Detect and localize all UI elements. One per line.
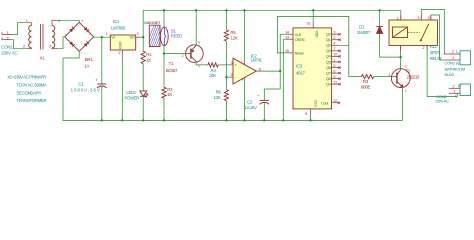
- label IC3: [296, 64, 303, 69]
- svg-text:R3: R3: [363, 79, 369, 84]
- relay common pin bottom: [426, 45, 428, 49]
- svg-text:Reset: Reset: [295, 52, 305, 56]
- pin 13 CKEN IC3: [287, 38, 294, 40]
- relay contact pin top A: [420, 15, 422, 20]
- junction rail R5: [225, 9, 227, 11]
- magnet symbol: [146, 25, 166, 46]
- pin 4 label IC2: [241, 78, 243, 82]
- diode D1 1N4007: [376, 27, 382, 34]
- transformer X1: [27, 20, 57, 49]
- resistor R1: [141, 51, 145, 64]
- svg-text:1N4007: 1N4007: [357, 30, 371, 35]
- label 2N2219: [407, 74, 421, 79]
- regulator IC1 LM7805 body: [110, 35, 135, 50]
- svg-text:11: 11: [333, 80, 337, 84]
- svg-text:~: ~: [89, 32, 91, 36]
- pin 1 label T2 emitter: [405, 89, 407, 93]
- junction node DC+ / C1: [101, 36, 103, 38]
- pin 8 VSS IC3: [310, 109, 312, 121]
- label C2: [247, 100, 253, 105]
- svg-text:4: 4: [241, 78, 243, 82]
- wire IC1 VO to node: [141, 36, 143, 38]
- svg-text:Q1: Q1: [326, 38, 331, 42]
- svg-text:2: 2: [452, 85, 454, 89]
- wire rail to D1: [379, 10, 381, 26]
- svg-text:680E: 680E: [361, 85, 371, 90]
- svg-text:1: 1: [7, 31, 9, 35]
- svg-text:VSS: VSS: [314, 99, 318, 107]
- wire node to R2: [163, 54, 165, 88]
- ground rail wire: [63, 119, 403, 121]
- wire R4 to IC2 pin3: [218, 64, 229, 66]
- pin 15 Reset IC3: [287, 52, 294, 54]
- svg-text:LM7805: LM7805: [111, 26, 126, 31]
- label 1K value R1: [146, 58, 151, 63]
- svg-text:BR1: BR1: [85, 57, 94, 62]
- pin 2 label T1 base: [182, 54, 184, 58]
- wire IC2 out to node: [262, 70, 280, 72]
- label R6: [216, 90, 222, 95]
- label 1N4007 value D1: [357, 30, 371, 35]
- bridge ~ mark right: [89, 32, 91, 36]
- svg-text:Q8: Q8: [326, 77, 331, 81]
- svg-text:CON3: CON3: [445, 61, 456, 66]
- svg-text:POWER: POWER: [125, 95, 140, 100]
- svg-text:+: +: [257, 93, 260, 98]
- pin 1 label CON3: [452, 56, 454, 60]
- label BULB: [445, 72, 455, 77]
- svg-text:230V AC: 230V AC: [1, 51, 17, 56]
- pin name VDD: [314, 30, 318, 38]
- pin 11 label IC3: [333, 80, 337, 84]
- pin 3 line IC2: [230, 64, 234, 66]
- pin name VO: [130, 36, 135, 40]
- label T1: [169, 61, 174, 66]
- label RL1: [430, 44, 438, 49]
- pin name Q7: [326, 71, 331, 75]
- pin 2 CON2: [449, 87, 460, 89]
- wire T2 collector to coil node: [400, 57, 402, 69]
- caption X1=230V AC PRIMARY: [7, 75, 47, 80]
- svg-text:BULB: BULB: [445, 72, 455, 77]
- svg-text:BC557: BC557: [166, 68, 178, 73]
- label R5: [230, 30, 236, 35]
- svg-text:12K: 12K: [230, 35, 237, 40]
- junction node +5V at IC1 VO: [142, 36, 144, 38]
- svg-text:7: 7: [333, 47, 335, 51]
- pin 13 label IC3: [285, 36, 289, 40]
- label LED1: [126, 90, 136, 95]
- pin 3 Q0 IC3: [332, 33, 341, 35]
- svg-text:1000u,35V: 1000u,35V: [71, 88, 101, 93]
- svg-text:R1: R1: [146, 52, 152, 57]
- wire node to T1 base: [164, 53, 188, 55]
- pin 2 Q1 IC3: [332, 39, 341, 41]
- svg-text:2: 2: [182, 54, 184, 58]
- bridge ~ mark left: [65, 32, 67, 36]
- counter IC3 4017 body: [293, 28, 332, 109]
- svg-text:SECONDARY: SECONDARY: [16, 90, 41, 95]
- svg-text:REED: REED: [171, 34, 182, 39]
- pin 2 label T2 base: [388, 73, 390, 77]
- svg-text:2: 2: [231, 73, 233, 77]
- svg-text:TO 9V AC, 500MA: TO 9V AC, 500MA: [16, 83, 47, 88]
- label T2: [405, 69, 410, 74]
- svg-text:SPDT: SPDT: [430, 50, 441, 55]
- svg-text:CKEN: CKEN: [295, 38, 305, 42]
- wire IC3 CKEN to ground: [283, 39, 286, 120]
- label IC2: [251, 53, 258, 58]
- svg-text:C1: C1: [78, 82, 84, 87]
- svg-text:Cout: Cout: [321, 102, 329, 106]
- svg-text:BATHROOM: BATHROOM: [445, 66, 465, 71]
- relay coil link dashed: [408, 31, 420, 33]
- label BC557: [166, 68, 178, 73]
- svg-text:3: 3: [49, 45, 51, 49]
- junction R6 ground: [225, 119, 227, 121]
- svg-text:Q2: Q2: [326, 44, 331, 48]
- svg-text:T1: T1: [169, 61, 174, 66]
- svg-text:-: -: [81, 50, 83, 55]
- pin IC1 VO: [136, 36, 141, 38]
- svg-text:LED1: LED1: [126, 90, 136, 95]
- pin name GND (IC1): [119, 41, 123, 49]
- pin 3 label X1: [49, 45, 51, 49]
- svg-text:15: 15: [285, 49, 289, 53]
- junction rail T1 emitter: [195, 9, 197, 11]
- junction node CLK: [279, 70, 281, 72]
- svg-text:3: 3: [417, 16, 419, 20]
- wire LED1 to ground: [142, 96, 144, 120]
- bridge + mark: [81, 19, 84, 24]
- svg-text:4: 4: [333, 42, 335, 46]
- relay RL1 body: [389, 20, 438, 45]
- pin name VSS: [314, 99, 318, 107]
- svg-text:+: +: [95, 78, 98, 83]
- svg-text:2: 2: [23, 45, 25, 49]
- svg-text:13: 13: [285, 36, 289, 40]
- svg-text:1: 1: [106, 32, 108, 36]
- pin name Q4: [326, 55, 331, 59]
- junction LED1 ground: [142, 119, 144, 121]
- pin 11 Q9 IC3: [332, 83, 341, 85]
- pin 6 output IC2: [256, 70, 262, 72]
- pin 7 label IC3: [333, 47, 335, 51]
- pin 1 label IC3: [333, 58, 335, 62]
- label R2: [167, 87, 173, 92]
- junction C1 ground: [101, 119, 103, 121]
- junction rail D1: [378, 9, 380, 11]
- svg-text:2: 2: [388, 73, 390, 77]
- svg-text:RELAY: RELAY: [430, 56, 442, 61]
- svg-text:1u,16V: 1u,16V: [245, 105, 257, 110]
- junction IC2 V- ground: [243, 119, 245, 121]
- label D1: [359, 25, 365, 30]
- svg-text:14: 14: [285, 31, 289, 35]
- bridge rectifier BR1: [65, 22, 94, 51]
- svg-text:2: 2: [422, 46, 424, 50]
- svg-text:VDD: VDD: [314, 30, 318, 38]
- pin name Q5: [326, 60, 331, 64]
- svg-text:3: 3: [137, 32, 139, 36]
- svg-text:4017: 4017: [296, 71, 306, 76]
- label CON1: [1, 45, 13, 50]
- label S1: [171, 28, 177, 33]
- pin 3 label IC2: [231, 61, 233, 65]
- junction CKEN ground: [282, 119, 284, 121]
- pin 1 label X1: [26, 19, 28, 23]
- resistor R3: [362, 75, 374, 79]
- label RELAY: [430, 56, 442, 61]
- label C1: [78, 82, 84, 87]
- svg-text:Q9: Q9: [326, 82, 331, 86]
- resistor R6: [224, 90, 228, 101]
- connector CON2 body: [460, 84, 471, 96]
- pin 4 label IC3: [333, 42, 335, 46]
- label SPDT: [430, 50, 441, 55]
- svg-text:VI: VI: [111, 36, 114, 40]
- svg-text:IC1: IC1: [113, 19, 120, 24]
- pin 2 label CON3: [452, 50, 454, 54]
- wire R3 to T2 base: [374, 76, 393, 78]
- pin 4 Q2 IC3: [332, 44, 339, 46]
- svg-text:L: L: [456, 49, 459, 54]
- wire relay A to CON3 L: [421, 9, 444, 54]
- pin name CLK: [295, 33, 302, 37]
- pin label relay B: [428, 16, 430, 20]
- relay switch blade: [420, 24, 429, 42]
- wire Q2 down to R3: [349, 45, 362, 76]
- pin 1 CON2: [449, 92, 460, 94]
- pin 5 Q6 IC3: [332, 66, 341, 68]
- pin 1 label CON2: [454, 90, 456, 94]
- svg-text:8: 8: [305, 112, 307, 116]
- pin 2 label CON2: [452, 85, 454, 89]
- svg-text:L: L: [455, 94, 458, 99]
- label R4: [211, 68, 217, 73]
- pin 2 label IC1: [118, 51, 120, 55]
- pin name Cout: [321, 102, 329, 106]
- svg-text:4: 4: [58, 19, 60, 23]
- wire node to IC3 CLK: [280, 34, 286, 71]
- pin 7 label IC2: [241, 60, 243, 64]
- wire T1 collector to R4: [196, 62, 208, 65]
- pin 6 label IC3: [333, 69, 335, 73]
- wire X1 secondary top to bridge AC+: [58, 20, 80, 22]
- svg-text:10: 10: [333, 53, 337, 57]
- pin name Q0: [326, 33, 331, 37]
- pin label relay A: [417, 16, 419, 20]
- svg-text:MAGNET: MAGNET: [144, 20, 161, 25]
- svg-text:LM741: LM741: [251, 58, 263, 63]
- pin 14 CLK IC3: [287, 33, 294, 35]
- net label N (CON2): [458, 84, 461, 89]
- svg-text:X1: X1: [40, 55, 46, 60]
- pin 3 label T2 collector: [405, 64, 407, 68]
- relay coil pin top: [400, 16, 402, 21]
- junction C2 ground: [263, 119, 265, 121]
- wire X1 secondary bottom to bridge AC-: [58, 37, 65, 49]
- wire relay B to CON3 N: [431, 15, 445, 60]
- resistor R2: [162, 87, 166, 98]
- svg-text:16: 16: [307, 22, 311, 26]
- svg-text:12K: 12K: [214, 95, 221, 100]
- label REED: [171, 34, 182, 39]
- label LM7805: [111, 26, 126, 31]
- svg-text:5: 5: [428, 16, 430, 20]
- net label L (CON2): [455, 94, 458, 99]
- svg-text:R5: R5: [230, 30, 236, 35]
- svg-text:1: 1: [397, 16, 399, 20]
- svg-text:1A: 1A: [84, 64, 89, 69]
- wire CON1 pin2 to X1 pin2: [11, 40, 27, 49]
- label 10K value R4: [209, 73, 216, 78]
- svg-text:1: 1: [333, 58, 335, 62]
- label R3: [363, 79, 369, 84]
- wire R1 to LED1: [142, 64, 144, 91]
- svg-text:10K: 10K: [209, 73, 216, 78]
- relay coil: [393, 27, 408, 38]
- pin 3 label IC1: [137, 32, 139, 36]
- label 680E value R3: [361, 85, 371, 90]
- junction R2 ground: [163, 119, 165, 121]
- capacitor C2: [257, 93, 269, 104]
- svg-text:1K: 1K: [146, 58, 151, 63]
- svg-text:IC3: IC3: [296, 64, 303, 69]
- label CON2: [436, 94, 447, 99]
- svg-text:N: N: [458, 84, 461, 89]
- label 4017: [296, 71, 306, 76]
- pin 10 label IC3: [333, 53, 337, 57]
- svg-text:1: 1: [405, 89, 407, 93]
- wire bridge DC+ to IC1 VI: [94, 36, 111, 38]
- bridge - mark: [81, 50, 83, 55]
- resistor R4: [208, 63, 218, 67]
- svg-text:2N2219: 2N2219: [407, 74, 421, 79]
- pin name Q8: [326, 77, 331, 81]
- svg-text:+: +: [81, 19, 84, 24]
- pin 7 Q3 IC3: [332, 50, 341, 52]
- reed switch S1: [160, 27, 168, 46]
- capacitor C1: [95, 78, 106, 88]
- pin 12 label IC3: [333, 99, 337, 103]
- svg-text:CLK: CLK: [295, 33, 302, 37]
- pin 1 label IC1: [106, 32, 108, 36]
- pin 3 label IC3: [333, 31, 335, 35]
- svg-text:~: ~: [65, 32, 67, 36]
- label X1: [40, 55, 46, 60]
- wire CON1 pin1 to X1 pin1: [11, 23, 27, 35]
- label 230V AC (CON2): [435, 99, 449, 104]
- pin name VI: [111, 36, 114, 40]
- pin 1 label T1 collector: [198, 64, 200, 68]
- svg-text:2: 2: [118, 51, 120, 55]
- wire bridge DC- to ground: [63, 51, 79, 120]
- svg-text:12: 12: [333, 99, 337, 103]
- wire divider node to IC2 pin2: [226, 76, 229, 78]
- connector CON1 pin 2: [2, 36, 11, 40]
- svg-text:2: 2: [452, 50, 454, 54]
- pin 14 label IC3: [285, 31, 289, 35]
- transistor T2 2N2219: [391, 69, 410, 88]
- wire IC3 Reset to Q2 loop: [277, 16, 348, 53]
- wire C1 bottom: [101, 87, 103, 121]
- junction rail reed: [163, 9, 165, 11]
- minus mark IC2: [235, 75, 237, 80]
- pin name Q9: [326, 82, 331, 86]
- wire VO node to R1: [142, 37, 144, 51]
- junction node relay coil / D1 / T2: [399, 56, 401, 58]
- pin 2 CON3: [444, 53, 460, 55]
- pin 9 label IC3: [333, 75, 335, 79]
- svg-text:VO: VO: [130, 36, 135, 40]
- caption TRANSFORMER: [16, 98, 46, 103]
- label 1u,16V value C2: [245, 105, 257, 110]
- pin 6 label IC2: [259, 67, 261, 71]
- pin name Q2: [326, 44, 331, 48]
- label R1: [146, 52, 152, 57]
- label 12K value R6: [214, 95, 221, 100]
- pin 15 label IC3: [285, 49, 289, 53]
- pin name Q1: [326, 38, 331, 42]
- svg-text:Q6: Q6: [326, 66, 331, 70]
- label BATHROOM: [445, 66, 465, 71]
- pin IC1 GND wire: [121, 50, 123, 120]
- junction VSS ground: [309, 119, 311, 121]
- svg-text:Q4: Q4: [326, 55, 331, 59]
- svg-text:X1=230V AC PRIMARY: X1=230V AC PRIMARY: [7, 75, 47, 80]
- svg-text:T2: T2: [405, 69, 410, 74]
- svg-text:3: 3: [231, 61, 233, 65]
- pin 8 label IC3: [305, 112, 307, 116]
- svg-text:C2: C2: [247, 100, 253, 105]
- svg-text:230V AC: 230V AC: [435, 99, 449, 104]
- svg-text:TRANSFORMER: TRANSFORMER: [16, 98, 46, 103]
- svg-text:Q5: Q5: [326, 60, 331, 64]
- label BR1: [85, 57, 94, 62]
- wire +5V top rail: [143, 9, 401, 11]
- label 230V AC (CON1): [1, 51, 17, 56]
- svg-text:1: 1: [452, 56, 454, 60]
- pin 2 label IC2: [231, 73, 233, 77]
- net label N (CON3): [456, 61, 459, 66]
- op-amp IC2 LM741 body: [233, 58, 256, 84]
- svg-text:CON1: CON1: [1, 45, 13, 50]
- junction rail IC2 V+: [243, 9, 245, 11]
- pin 10 Q4 IC3: [332, 55, 341, 57]
- wire C2 to ground: [263, 103, 265, 120]
- pin 3 label T1 emitter: [198, 40, 200, 44]
- label MAGNET: [144, 20, 161, 25]
- wire T1 emitter to rail: [195, 10, 197, 45]
- wire divider node to R6: [225, 77, 227, 90]
- pin 16 VDD IC3: [312, 10, 314, 28]
- wire rail to reed S1: [163, 10, 165, 27]
- pin label relay common: [422, 46, 424, 50]
- pin 4 label X1: [58, 19, 60, 23]
- pin name Q3: [326, 49, 331, 53]
- connector CON3 body: [460, 51, 471, 65]
- label LM741: [251, 58, 263, 63]
- wire R5 to divider node: [225, 41, 227, 77]
- pin 2 label IC3: [333, 36, 335, 40]
- svg-text:2: 2: [333, 36, 335, 40]
- svg-text:1: 1: [454, 90, 456, 94]
- resistor R5: [224, 30, 228, 41]
- wire R2 to ground: [163, 98, 165, 120]
- wire D1 to coil node: [380, 34, 401, 58]
- relay coil pin bottom: [400, 45, 402, 57]
